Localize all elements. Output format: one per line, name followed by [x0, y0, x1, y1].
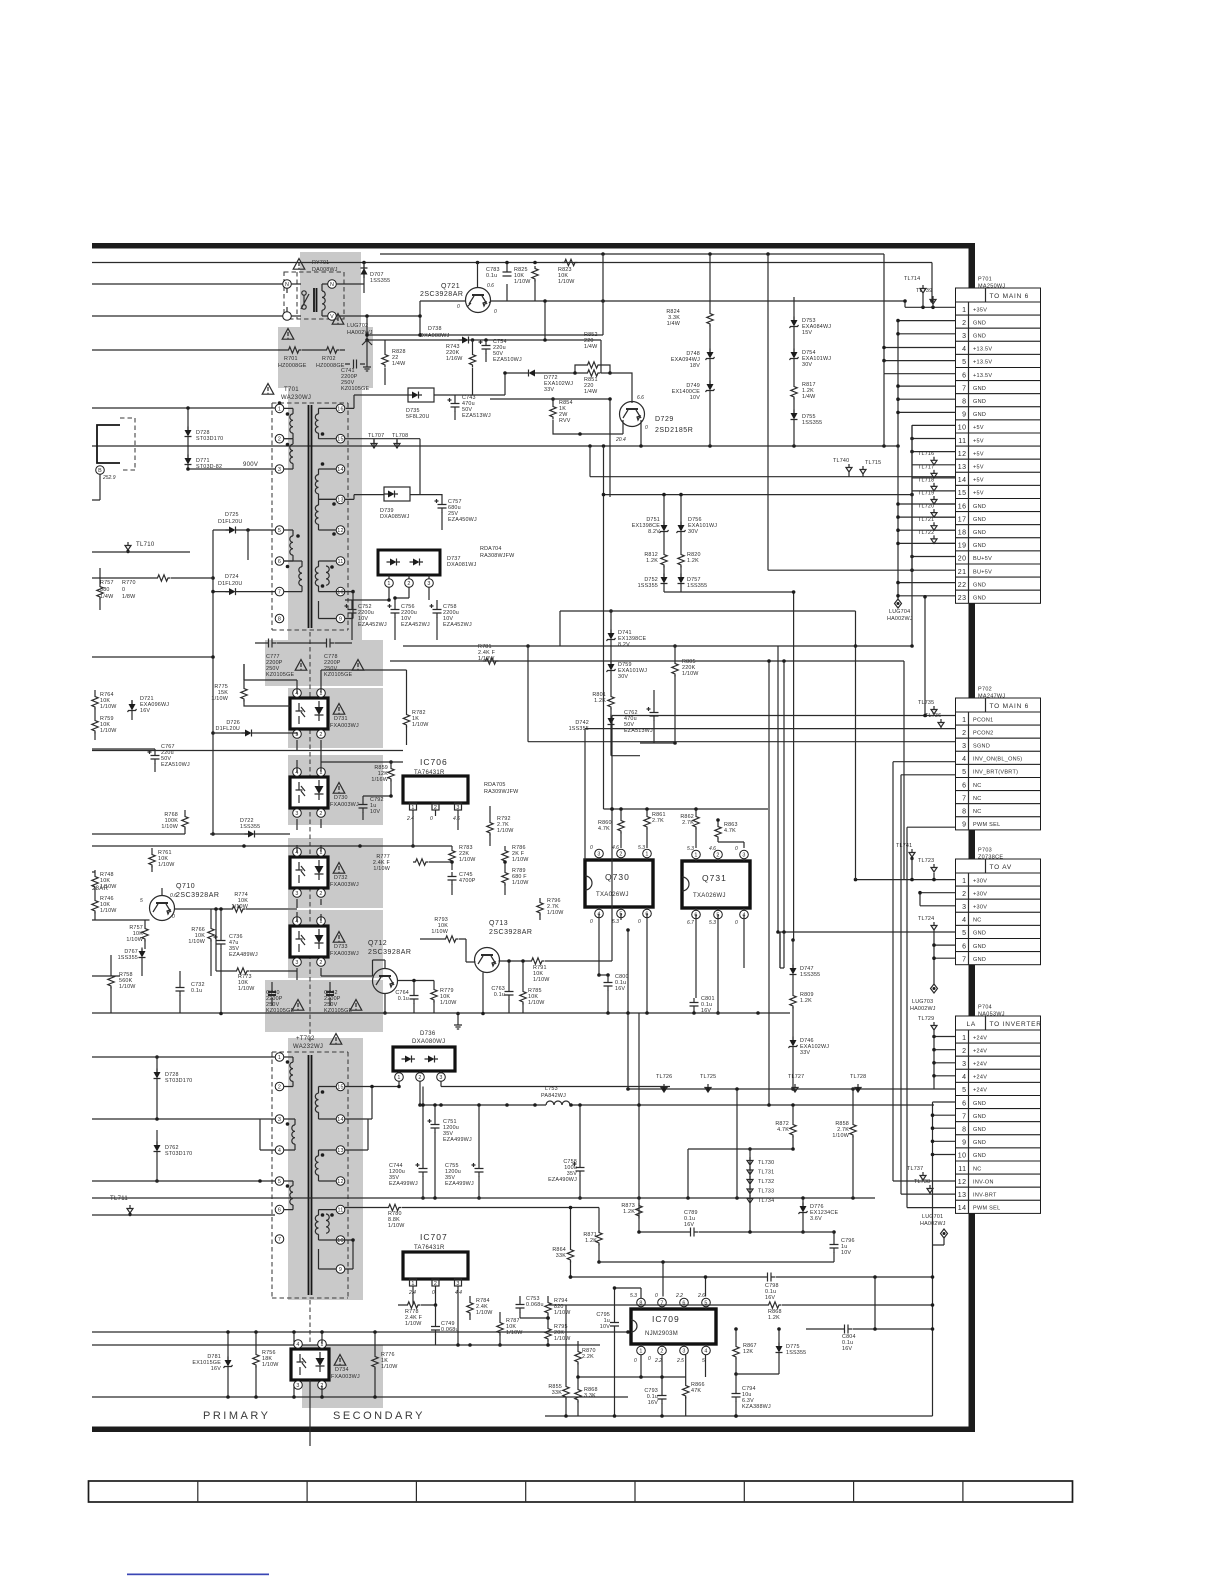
resistor R782 — [403, 670, 429, 745]
svg-text:6: 6 — [962, 782, 966, 789]
svg-text:Q713: Q713 — [489, 920, 508, 927]
capacitors C777 C778 shaded zone — [265, 640, 383, 686]
svg-text:13: 13 — [958, 1192, 967, 1199]
svg-text:3: 3 — [296, 1383, 299, 1389]
zener D753 — [790, 317, 832, 337]
optocoupler D734 — [291, 1340, 360, 1390]
svg-text:1: 1 — [645, 852, 648, 858]
capacitor C744 — [389, 1103, 428, 1200]
svg-text:DXA080WJ: DXA080WJ — [412, 1039, 445, 1045]
svg-text:+5V: +5V — [973, 491, 984, 497]
svg-text:19: 19 — [958, 543, 967, 550]
svg-text:R770: R770 — [122, 580, 136, 586]
svg-text:B: B — [98, 468, 102, 474]
svg-text:7: 7 — [962, 956, 966, 963]
svg-text:3: 3 — [295, 891, 298, 897]
capacitor C749 — [431, 1305, 459, 1345]
svg-text:2SC3928AR: 2SC3928AR — [176, 892, 219, 899]
diode D739 — [345, 487, 442, 520]
svg-text:5.3: 5.3 — [687, 846, 694, 852]
svg-text:0: 0 — [645, 425, 648, 431]
transformer T702 winding 11-10 — [315, 1210, 336, 1240]
svg-text:15V: 15V — [802, 330, 812, 336]
transformer T701 winding 16-15 — [315, 408, 336, 438]
svg-text:5F8L20U: 5F8L20U — [406, 414, 430, 420]
testpoint TL728 — [850, 1074, 866, 1092]
svg-text:18V: 18V — [690, 363, 700, 369]
svg-text:9: 9 — [339, 1267, 342, 1273]
svg-text:0: 0 — [648, 1356, 651, 1362]
svg-text:2.2K: 2.2K — [582, 1354, 594, 1360]
resistor R783 — [449, 845, 476, 870]
svg-text:IC709: IC709 — [652, 1314, 680, 1324]
optocoupler D732 — [290, 848, 359, 898]
capacitors C752 C756 C758 — [345, 598, 472, 640]
svg-text:+24V: +24V — [973, 1048, 987, 1054]
svg-text:12: 12 — [958, 1179, 967, 1186]
optocoupler D733 shaded zone — [288, 910, 383, 978]
svg-text:1/10W: 1/10W — [554, 1310, 571, 1316]
diode D757 — [678, 566, 708, 592]
wire P702 rows 4 5 9 — [893, 762, 956, 1208]
diode D755 — [791, 398, 823, 446]
svg-text:1: 1 — [387, 581, 390, 587]
svg-text:2: 2 — [319, 811, 322, 817]
zener D776 — [799, 1196, 839, 1234]
svg-text:4.7K: 4.7K — [724, 828, 736, 834]
capacitor C762 — [624, 690, 675, 743]
svg-text:1: 1 — [962, 717, 966, 724]
svg-text:1/10W: 1/10W — [514, 279, 531, 285]
svg-text:Q712: Q712 — [368, 940, 387, 947]
lug LUG703 — [910, 984, 938, 1012]
capacitor C742 — [324, 982, 362, 1014]
svg-text:RA309WJFW: RA309WJFW — [484, 789, 519, 795]
svg-text:5.3: 5.3 — [638, 845, 645, 851]
svg-text:6: 6 — [962, 372, 966, 379]
svg-text:BU+5V: BU+5V — [973, 556, 992, 562]
transformer T701 winding 1-2 — [284, 408, 293, 438]
svg-text:T701: T701 — [284, 387, 299, 393]
resistor R757 — [126, 920, 148, 949]
svg-text:1/10W: 1/10W — [682, 671, 699, 677]
resistor R863 — [715, 820, 744, 848]
svg-text:16V: 16V — [211, 1366, 221, 1372]
svg-text:1SS355: 1SS355 — [638, 583, 658, 589]
resistor R868b — [575, 1387, 598, 1416]
svg-text:1/10W: 1/10W — [431, 929, 448, 935]
zener D756 — [677, 495, 718, 535]
svg-text:LUG704: LUG704 — [889, 609, 910, 615]
wire P703 row5 long — [780, 932, 934, 968]
svg-text:TL734: TL734 — [758, 1198, 774, 1204]
svg-text:FXA003WJ: FXA003WJ — [330, 723, 359, 729]
svg-text:3: 3 — [295, 811, 298, 817]
svg-text:5.3: 5.3 — [612, 919, 619, 925]
svg-text:EZA452WJ: EZA452WJ — [401, 622, 430, 628]
resistor R781 — [478, 644, 499, 664]
svg-text:1: 1 — [397, 1075, 400, 1081]
svg-text:EZA450WJ: EZA450WJ — [448, 517, 477, 523]
schematic frame border bottom — [92, 1427, 975, 1433]
capacitor C755 — [445, 1103, 484, 1200]
svg-text:KZA388WJ: KZA388WJ — [742, 1404, 771, 1410]
testpoint TL714 — [904, 276, 926, 307]
svg-text:7: 7 — [962, 795, 966, 802]
svg-text:SGND: SGND — [973, 744, 990, 750]
svg-text:3: 3 — [427, 581, 430, 587]
svg-text:GND: GND — [973, 399, 986, 405]
svg-text:22: 22 — [958, 582, 967, 589]
svg-text:9: 9 — [339, 617, 342, 623]
resistor R828 — [382, 340, 406, 385]
capacitor C740 — [266, 982, 304, 1014]
wire rail to pins 4-6 — [882, 254, 955, 374]
svg-text:13: 13 — [337, 1148, 343, 1154]
svg-text:1/10W: 1/10W — [506, 1330, 523, 1336]
transformer T702 dashed box — [272, 1052, 348, 1298]
diode D752 — [638, 566, 668, 592]
svg-text:NC: NC — [973, 809, 982, 815]
svg-text:+5V: +5V — [973, 438, 984, 444]
svg-text:14: 14 — [337, 1117, 343, 1123]
transistor Q710 — [140, 883, 219, 921]
testpoint TL741 — [896, 843, 915, 881]
capacitor C754 — [479, 339, 522, 363]
wire relay left — [92, 284, 301, 316]
svg-text:11: 11 — [958, 438, 966, 445]
svg-text:3: 3 — [962, 333, 966, 340]
svg-text:GND: GND — [973, 517, 986, 523]
svg-text:8: 8 — [962, 809, 966, 816]
svg-text:N: N — [285, 282, 289, 288]
svg-text:16V: 16V — [648, 1400, 658, 1406]
resistor R764 — [92, 690, 117, 712]
capacitor C753 — [516, 1296, 544, 1318]
svg-text:6: 6 — [962, 943, 966, 950]
ic partial left — [92, 418, 135, 500]
svg-text:IC706: IC706 — [420, 757, 448, 767]
svg-text:1/10W: 1/10W — [100, 728, 117, 734]
transformer T701 left pins — [275, 404, 284, 623]
transformer T702 winding 10-9 — [319, 1238, 355, 1269]
resistor R702 — [316, 347, 345, 369]
svg-text:TL722: TL722 — [918, 530, 934, 536]
svg-text:GND: GND — [973, 1153, 986, 1159]
svg-text:8: 8 — [962, 399, 966, 406]
svg-text:3.3K: 3.3K — [584, 1393, 596, 1399]
svg-text:TL731: TL731 — [758, 1170, 774, 1176]
svg-text:+5V: +5V — [973, 451, 984, 457]
relay RY701 — [283, 259, 344, 321]
wire q730 bottom — [597, 914, 744, 1015]
transformer T701 winding 5-6 — [284, 530, 293, 561]
svg-text:1SS355: 1SS355 — [118, 955, 138, 961]
transformer T701 winding 10-9 — [319, 590, 355, 619]
svg-text:TO MAIN 6: TO MAIN 6 — [990, 293, 1030, 300]
wire 900V row — [186, 462, 275, 471]
svg-text:1/10W: 1/10W — [476, 1310, 493, 1316]
svg-text:ST03D170: ST03D170 — [196, 436, 223, 442]
transformer T701 label — [262, 384, 311, 402]
svg-text:P703: P703 — [978, 848, 992, 854]
transistor Q713 — [475, 920, 533, 973]
capacitor C764 — [395, 979, 434, 1014]
capacitor C792 — [359, 794, 393, 820]
svg-text:3: 3 — [597, 852, 600, 858]
svg-text:0: 0 — [590, 845, 593, 851]
zener D749 — [672, 362, 715, 446]
lug LUG704 — [887, 599, 913, 622]
svg-text:6: 6 — [962, 1100, 966, 1107]
resistor R780 — [345, 1204, 599, 1229]
wire zener box — [664, 590, 795, 940]
svg-text:4.7K: 4.7K — [777, 1127, 789, 1133]
connector P704 TO INVERTER — [956, 1005, 1042, 1214]
wire pin1 row — [92, 401, 281, 427]
resistors R851 R852 — [573, 332, 612, 395]
capacitor C745 — [448, 872, 476, 895]
resistor R792 — [487, 806, 514, 846]
capacitor C743 — [448, 395, 491, 420]
svg-text:TL736: TL736 — [925, 713, 941, 719]
testpoint TL723 — [918, 858, 937, 872]
svg-text:R702: R702 — [322, 356, 336, 362]
svg-text:TXA026WJ: TXA026WJ — [693, 893, 726, 899]
ground sym mid — [454, 1012, 462, 1029]
transistor Q729 — [615, 395, 693, 443]
wire P702 rows 1 2 — [585, 595, 956, 729]
svg-text:1/10W: 1/10W — [262, 1362, 279, 1368]
wire top rail — [380, 252, 884, 256]
svg-text:10: 10 — [958, 1153, 967, 1160]
resistor R812 — [644, 535, 667, 568]
svg-text:10: 10 — [958, 425, 967, 432]
svg-text:0.068u: 0.068u — [526, 1302, 544, 1308]
svg-text:GND: GND — [973, 1127, 986, 1133]
wire opto731 pins — [244, 664, 407, 762]
tp rail P701 — [912, 451, 956, 543]
svg-text:TL720: TL720 — [918, 504, 934, 510]
svg-text:4: 4 — [296, 1342, 299, 1348]
svg-text:23: 23 — [958, 595, 967, 602]
svg-text:1/16W: 1/16W — [371, 777, 388, 783]
transformer T702 phase dots — [286, 1060, 334, 1217]
svg-text:1SS355: 1SS355 — [802, 420, 822, 426]
capacitor C758b — [548, 1103, 584, 1200]
resistor R787 — [497, 1312, 523, 1347]
wire d753 col — [793, 297, 795, 320]
svg-text:16V: 16V — [684, 1222, 694, 1228]
svg-text:1/10W: 1/10W — [547, 910, 564, 916]
wire Q729 base — [610, 373, 632, 403]
svg-text:2: 2 — [278, 1085, 281, 1091]
svg-text:TL728: TL728 — [850, 1074, 866, 1080]
svg-text:EZA452WJ: EZA452WJ — [358, 622, 387, 628]
resistor R770 — [92, 568, 213, 610]
capacitor C789 — [639, 1210, 834, 1237]
svg-text:1/10W: 1/10W — [188, 939, 205, 945]
testpoint TL740 — [833, 458, 852, 477]
svg-text:7: 7 — [278, 590, 281, 596]
svg-text:D729: D729 — [655, 416, 674, 423]
svg-text:1/10W: 1/10W — [158, 862, 175, 868]
svg-text:TL724: TL724 — [918, 916, 934, 922]
LUG702 shaded zone — [278, 327, 373, 388]
wire t702 left wires — [92, 1057, 275, 1183]
svg-text:0.1u: 0.1u — [191, 988, 202, 994]
svg-text:+24V: +24V — [973, 1075, 987, 1081]
svg-text:4: 4 — [278, 1148, 281, 1154]
svg-text:LUG702: LUG702 — [347, 323, 368, 329]
diode D725 — [218, 512, 242, 534]
svg-text:Q710: Q710 — [176, 883, 195, 890]
svg-text:1/10W: 1/10W — [554, 1336, 571, 1342]
optocoupler D730 shaded zone — [288, 755, 383, 825]
svg-text:4.7K: 4.7K — [598, 826, 610, 832]
svg-text:8.2V: 8.2V — [648, 529, 660, 535]
svg-text:KZ0105GE: KZ0105GE — [341, 386, 369, 392]
rectifier D737 RDA704 — [378, 546, 515, 600]
transformer T701 winding 11-10 — [315, 561, 336, 592]
svg-text:1/10W: 1/10W — [381, 1364, 398, 1370]
svg-text:0: 0 — [494, 309, 497, 315]
transistor Q721 — [420, 263, 497, 316]
svg-text:17: 17 — [958, 516, 967, 523]
svg-text:ST03D170: ST03D170 — [165, 1078, 192, 1084]
wire rail 1089 — [626, 1087, 934, 1091]
wire emitter rail — [491, 263, 956, 310]
svg-text:GND: GND — [973, 334, 986, 340]
wire vert 769 — [767, 661, 771, 1107]
connector P702 TO MAIN 6 — [956, 687, 1041, 830]
svg-text:D1FL20U: D1FL20U — [218, 519, 242, 525]
svg-text:10: 10 — [337, 1238, 343, 1244]
svg-text:1: 1 — [278, 406, 281, 412]
svg-text:GND: GND — [973, 931, 986, 937]
svg-text:TL740: TL740 — [833, 458, 849, 464]
svg-text:1/10W: 1/10W — [405, 1321, 422, 1327]
svg-text:GND: GND — [973, 530, 986, 536]
svg-text:9: 9 — [962, 412, 966, 419]
svg-text:1/10W: 1/10W — [440, 1000, 457, 1006]
svg-text:6.7: 6.7 — [687, 920, 694, 926]
transformer T701 phase dots — [286, 412, 336, 588]
svg-text:1/10W: 1/10W — [373, 866, 390, 872]
testpoints TL730-734 — [747, 1147, 774, 1232]
svg-text:2: 2 — [319, 891, 322, 897]
relay RY701 shaded zone — [300, 252, 361, 327]
svg-text:EZA452WJ: EZA452WJ — [443, 622, 472, 628]
svg-text:1: 1 — [639, 1349, 642, 1355]
svg-text:2: 2 — [660, 1349, 663, 1355]
svg-text:TL716: TL716 — [918, 451, 934, 457]
svg-text:+13.5V: +13.5V — [973, 347, 992, 353]
svg-text:13: 13 — [337, 497, 343, 503]
svg-text:NC: NC — [973, 783, 982, 789]
svg-text:16: 16 — [337, 406, 343, 412]
connector P701 TO MAIN 6 — [956, 277, 1041, 604]
resistor R862 — [680, 809, 699, 848]
+24 rail P704 — [918, 1016, 956, 1089]
svg-text:10V: 10V — [600, 1324, 610, 1330]
svg-text:8: 8 — [962, 1127, 966, 1134]
svg-text:1/10W: 1/10W — [558, 279, 575, 285]
gnd rail P701 — [896, 319, 955, 599]
transformer T702 winding 15-14 — [315, 1087, 336, 1120]
svg-text:5: 5 — [962, 930, 966, 937]
svg-text:5: 5 — [962, 359, 966, 366]
svg-text:GND: GND — [973, 1114, 986, 1120]
svg-text:5: 5 — [962, 1087, 966, 1094]
transformer T702 core — [309, 1055, 312, 1295]
svg-text:16V: 16V — [765, 1295, 775, 1301]
resistor R793 — [420, 917, 476, 962]
svg-text:TL721: TL721 — [918, 517, 934, 523]
svg-text:2: 2 — [716, 853, 719, 859]
svg-text:D724: D724 — [225, 574, 239, 580]
svg-text:6: 6 — [278, 1208, 281, 1214]
svg-text:BU+5V: BU+5V — [973, 569, 992, 575]
capacitor C736 — [214, 907, 258, 1015]
optocoupler D730 — [290, 768, 359, 818]
diode D771 — [185, 440, 223, 470]
resistor R861 — [644, 809, 666, 848]
svg-text:TO MAIN 6: TO MAIN 6 — [990, 703, 1030, 710]
transformer T702 winding 13-12 — [315, 1150, 336, 1181]
diode D707 — [361, 263, 391, 294]
capacitor C778 — [322, 639, 364, 679]
svg-text:13: 13 — [958, 464, 967, 471]
capacitor C798 — [569, 1273, 933, 1331]
resistor R796 — [537, 898, 564, 920]
wire left rails — [92, 749, 185, 976]
svg-text:9: 9 — [962, 822, 966, 829]
wire rail 750 — [92, 750, 403, 752]
svg-text:11: 11 — [958, 1166, 966, 1173]
wire sec rails — [345, 596, 409, 602]
resistor R854 — [550, 397, 641, 446]
svg-text:NJM2903M: NJM2903M — [645, 1331, 678, 1337]
label SECONDARY — [333, 1410, 425, 1422]
svg-text:P702: P702 — [978, 687, 992, 693]
label 28AR left — [92, 886, 109, 892]
svg-text:252.9: 252.9 — [102, 475, 116, 481]
wire rail 494 — [602, 446, 914, 809]
svg-text:GND: GND — [973, 944, 986, 950]
revision underline — [127, 1574, 269, 1576]
resistor R789 — [502, 860, 529, 895]
svg-text:7: 7 — [962, 1113, 966, 1120]
svg-text:HA002WJ: HA002WJ — [887, 616, 913, 622]
svg-text:1/10W: 1/10W — [528, 1000, 545, 1006]
wire vert 603 — [365, 254, 603, 337]
svg-text:0: 0 — [430, 816, 433, 822]
svg-text:P704: P704 — [978, 1005, 992, 1011]
svg-text:1SS355: 1SS355 — [687, 583, 707, 589]
transformer T701 winding 13-12 — [315, 499, 336, 530]
capacitor C783 — [486, 263, 512, 302]
svg-text:D731: D731 — [334, 716, 348, 722]
+5v rail P701 — [768, 254, 956, 572]
svg-text:47K: 47K — [691, 1388, 701, 1394]
svg-text:N: N — [330, 282, 334, 288]
svg-text:5: 5 — [962, 769, 966, 776]
svg-text:1/10W: 1/10W — [497, 828, 514, 834]
wire rail1013 — [92, 1011, 790, 1015]
zener D741 — [607, 609, 647, 648]
svg-text:4.4: 4.4 — [455, 1290, 462, 1296]
